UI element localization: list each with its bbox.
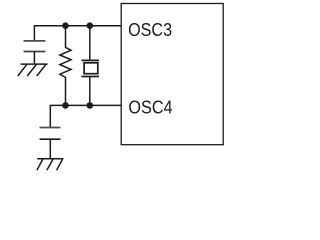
- svg-text:OSC4: OSC4: [128, 97, 172, 118]
- svg-text:OSC3: OSC3: [128, 19, 172, 40]
